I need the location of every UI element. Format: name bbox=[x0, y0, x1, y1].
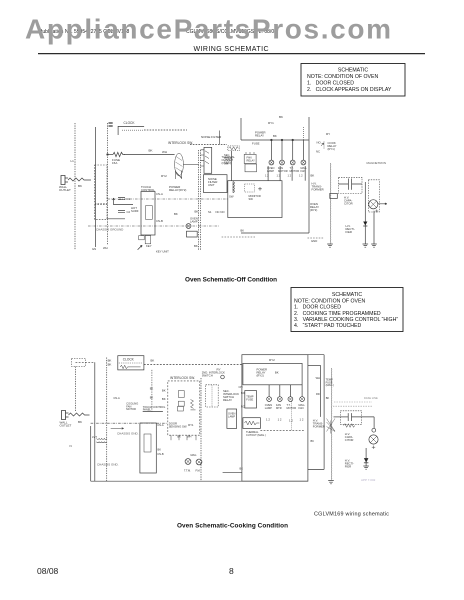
svg-text:FAN: FAN bbox=[299, 406, 304, 410]
svg-text:CN-A: CN-A bbox=[156, 192, 163, 196]
ground symbol cathode bbox=[371, 244, 377, 247]
center rail (double dashed) bbox=[200, 378, 202, 481]
svg-text:BK: BK bbox=[326, 396, 330, 400]
svg-text:NOISE FILTER: NOISE FILTER bbox=[201, 135, 222, 139]
wire cutout to monitor box bbox=[231, 151, 233, 181]
junction dots on bus bbox=[271, 139, 273, 141]
svg-text:BK: BK bbox=[194, 244, 198, 248]
svg-text:Oven Schematic-Cooking Conditi: Oven Schematic-Cooking Condition bbox=[177, 523, 288, 530]
clock inner dotted bbox=[122, 129, 144, 131]
dotted feeder bbox=[302, 127, 304, 140]
svg-text:4. “START” PAD TOUCHED: 4. “START” PAD TOUCHED bbox=[294, 323, 362, 329]
svg-text:WH: WH bbox=[316, 376, 320, 380]
return bus (dashed) bbox=[260, 429, 304, 431]
cook relay contact (dotted) bbox=[323, 142, 325, 150]
lamp socket box bbox=[187, 231, 198, 237]
note box 1 border bbox=[301, 64, 405, 97]
oven lamp motor M1 bbox=[269, 160, 274, 165]
svg-text:BK: BK bbox=[162, 389, 166, 393]
motor drop 4 bbox=[302, 140, 304, 160]
note box 2 border bbox=[291, 288, 403, 332]
control inner block bbox=[146, 206, 153, 220]
wire stub top bbox=[218, 131, 220, 145]
ground bus (dash-dot) bbox=[108, 198, 229, 200]
svg-text:1 2: 1 2 bbox=[300, 418, 304, 422]
touch control panel box U1 bbox=[141, 192, 155, 236]
wire N rail (dashed) bbox=[107, 123, 109, 245]
power cord lead bbox=[69, 413, 90, 416]
motor drop 1 bbox=[270, 140, 272, 160]
wire top left (dashed) bbox=[76, 361, 95, 363]
svg-text:PANEL: PANEL bbox=[143, 408, 152, 412]
ground arrow link bbox=[111, 428, 124, 430]
ground symbol T1 bbox=[327, 244, 333, 247]
svg-text:CN-B: CN-B bbox=[157, 452, 164, 456]
power relay block bbox=[243, 363, 302, 384]
header rule bbox=[38, 53, 425, 55]
ground chassis link (dashed) bbox=[308, 237, 325, 239]
HV transformer T1 winding bbox=[330, 368, 333, 480]
svg-text:FUSE: FUSE bbox=[252, 142, 260, 146]
svg-text:NC: NC bbox=[316, 150, 320, 154]
svg-text:SURF: SURF bbox=[131, 209, 139, 213]
clock unit box corner bbox=[118, 126, 144, 135]
svg-text:KEY: KEY bbox=[146, 244, 152, 248]
door switch box B (dashed) bbox=[95, 205, 107, 220]
svg-text:MTR: MTR bbox=[276, 406, 282, 410]
LVT transformer winding bbox=[97, 438, 107, 441]
HV capacitor box (dashed) bbox=[340, 411, 361, 425]
motor drop 2 bbox=[279, 385, 281, 397]
HV transformer secondary box bbox=[330, 193, 338, 198]
ground symbol diode bbox=[363, 244, 369, 247]
svg-text:FORMER: FORMER bbox=[312, 188, 324, 192]
neutral rail bbox=[90, 426, 92, 481]
svg-text:CLOCK: CLOCK bbox=[123, 358, 135, 362]
svg-text:LAMP: LAMP bbox=[265, 406, 272, 410]
svg-text:BK: BK bbox=[195, 210, 199, 214]
svg-text:NC: NC bbox=[241, 405, 245, 409]
HV diode bar bbox=[364, 462, 369, 464]
rail 3 (dashed) bbox=[106, 358, 108, 482]
svg-text:BK: BK bbox=[311, 439, 315, 443]
node plus magnetron bbox=[375, 210, 378, 213]
power cord plug P1 bbox=[62, 411, 69, 420]
ground symbol T1 bbox=[328, 481, 334, 484]
svg-text:BK: BK bbox=[108, 363, 112, 367]
svg-text:2. CLOCK APPEARS ON DISPLAY: 2. CLOCK APPEARS ON DISPLAY bbox=[307, 87, 392, 93]
noise filter unit box 2 bbox=[204, 175, 228, 193]
HV capacitor box (dashed) bbox=[339, 177, 363, 193]
fuse F1 bbox=[113, 152, 125, 156]
svg-text:RY: RY bbox=[217, 368, 221, 372]
relay coil hatching bbox=[176, 157, 183, 178]
svg-text:1 2: 1 2 bbox=[299, 174, 303, 178]
clock inner dashed bbox=[119, 362, 143, 364]
magnetron tube bbox=[369, 435, 378, 444]
rail 2 bbox=[94, 362, 96, 481]
svg-text:C2: C2 bbox=[127, 210, 131, 214]
HV capacitor plates bbox=[348, 179, 351, 190]
HV transformer T1 winding bbox=[329, 163, 332, 244]
control inner block bbox=[144, 434, 151, 452]
svg-text:OUTLET: OUTLET bbox=[60, 424, 72, 428]
wire lower link bbox=[107, 218, 125, 220]
svg-text:WH: WH bbox=[103, 246, 108, 250]
temp fuse box bbox=[245, 391, 257, 408]
svg-text:(MAG.): (MAG.) bbox=[326, 383, 334, 387]
magnetron cathode rail bbox=[373, 211, 375, 244]
svg-text:UNIT: UNIT bbox=[208, 183, 215, 187]
junction dot bbox=[107, 154, 109, 156]
wire center rail (double dashed) bbox=[198, 150, 200, 250]
svg-text:08/08: 08/08 bbox=[37, 566, 59, 576]
wire to noise filter (dashed) bbox=[190, 144, 227, 146]
svg-text:MAGNETRON: MAGNETRON bbox=[367, 161, 387, 165]
svg-text:WH: WH bbox=[187, 435, 191, 439]
magnetron anode node bbox=[372, 446, 375, 449]
svg-text:RELAY: RELAY bbox=[255, 134, 264, 138]
HV capacitor leads bbox=[339, 183, 363, 185]
HV diode rail bbox=[364, 182, 366, 244]
svg-text:BK: BK bbox=[78, 420, 82, 424]
fan motor M2 bbox=[277, 397, 282, 402]
svg-text:1 2: 1 2 bbox=[277, 174, 281, 178]
svg-text:L1: L1 bbox=[71, 159, 75, 163]
svg-text:BK: BK bbox=[151, 359, 155, 363]
turntable motor M3 bbox=[288, 397, 293, 402]
svg-text:BK: BK bbox=[158, 448, 162, 452]
svg-text:3. VARIABLE COOKING CONTROL: 3. VARIABLE COOKING CONTROL “HIGH” bbox=[294, 317, 398, 323]
svg-text:2. COOKING TIME PROGRAMMED: 2. COOKING TIME PROGRAMMED bbox=[294, 311, 381, 317]
lamp socket box bbox=[227, 409, 237, 428]
svg-text:NC NO: NC NO bbox=[216, 210, 226, 214]
svg-text:BK: BK bbox=[150, 396, 154, 400]
svg-text:APP 7.002: APP 7.002 bbox=[361, 478, 376, 482]
oven lamp motor M1 bbox=[267, 397, 272, 402]
svg-text:N: N bbox=[70, 444, 72, 448]
thermal cutout element bbox=[245, 421, 260, 425]
svg-text:BK: BK bbox=[275, 371, 279, 375]
line filter box (dashed) bbox=[72, 359, 86, 367]
svg-text:T.T.M.: T.T.M. bbox=[184, 469, 191, 473]
magnetron filament terminal bbox=[372, 428, 376, 432]
svg-text:BK: BK bbox=[177, 435, 181, 439]
svg-text:SW.: SW. bbox=[224, 161, 229, 165]
svg-text:1 2: 1 2 bbox=[266, 418, 270, 422]
TTM return dotted bbox=[290, 402, 292, 431]
svg-text:CITOR: CITOR bbox=[344, 202, 353, 206]
wire fuse branch bbox=[108, 154, 114, 156]
svg-text:WIRING SCHEMATIC: WIRING SCHEMATIC bbox=[194, 46, 269, 53]
cook relay arrow bbox=[321, 143, 324, 146]
power relay RY2 coil bbox=[176, 171, 182, 180]
wire gauge marks bbox=[109, 123, 113, 126]
relay coil oval bbox=[175, 153, 184, 175]
motor drop 3 bbox=[292, 140, 294, 160]
svg-text:LAMP: LAMP bbox=[190, 220, 198, 224]
wire rail 2 bbox=[95, 127, 97, 247]
svg-text:RD: RD bbox=[316, 392, 320, 396]
svg-text:RY2: RY2 bbox=[269, 358, 275, 362]
svg-text:CUTOUT (MAG.): CUTOUT (MAG.) bbox=[246, 433, 266, 437]
oven lamp L bbox=[186, 224, 191, 229]
svg-text:(RY2): (RY2) bbox=[310, 208, 317, 212]
svg-text:SW.: SW. bbox=[249, 197, 254, 201]
HV capacitor lead right bbox=[352, 416, 375, 418]
HV capacitor lead left bbox=[334, 416, 349, 418]
magnetron fan motor M4 bbox=[300, 397, 305, 402]
interlock switch bank box bbox=[204, 147, 212, 173]
svg-text:RY2: RY2 bbox=[161, 174, 167, 178]
thermal cutout box (dashed) bbox=[228, 146, 240, 151]
svg-text:MOTOR: MOTOR bbox=[278, 169, 288, 173]
filament leads (gray dashed) bbox=[334, 401, 372, 403]
svg-text:NOTE: CONDITION OF OVEN: NOTE: CONDITION OF OVEN bbox=[294, 298, 365, 304]
power cord lead bbox=[68, 178, 91, 181]
wire L1 drop (dashed) bbox=[75, 367, 77, 412]
svg-text:CN-B: CN-B bbox=[156, 219, 163, 223]
power cord plug P1 bbox=[61, 176, 68, 185]
aux motor M6 bbox=[196, 459, 202, 465]
power in link bbox=[143, 411, 163, 413]
wire L1 rail (dashed) bbox=[74, 123, 76, 250]
turntable motor M3 bbox=[290, 160, 295, 165]
diode rail bbox=[365, 448, 367, 466]
magnetron antenna bbox=[378, 203, 387, 205]
HV return wire bbox=[308, 354, 324, 356]
svg-text:LVT: LVT bbox=[92, 435, 97, 439]
svg-text:INTERLOCK SW.: INTERLOCK SW. bbox=[170, 376, 195, 380]
capacitor C2 plates bbox=[118, 211, 125, 213]
ground symbol diode bbox=[363, 466, 369, 469]
main relay unit box bbox=[242, 355, 308, 482]
svg-text:SW: SW bbox=[229, 195, 234, 199]
chassis ground line (dash-dot) bbox=[91, 422, 167, 424]
wire oval to rail bbox=[183, 164, 198, 166]
bottom return bus bbox=[91, 480, 308, 482]
svg-text:(RY2): (RY2) bbox=[257, 374, 264, 378]
motor drop 2 bbox=[281, 140, 283, 160]
pin ticks above aux bbox=[246, 152, 254, 154]
wire top feeder bbox=[240, 118, 242, 140]
svg-text:BK: BK bbox=[150, 387, 154, 391]
svg-text:CN-A: CN-A bbox=[113, 396, 120, 400]
svg-text:AppliancePartsPros.com: AppliancePartsPros.com bbox=[25, 14, 391, 45]
svg-text:OUTLET: OUTLET bbox=[59, 188, 71, 192]
clock heater element bbox=[120, 365, 140, 369]
svg-text:NO: NO bbox=[317, 141, 322, 145]
node plus bbox=[258, 187, 262, 191]
svg-text:BK: BK bbox=[162, 397, 166, 401]
svg-text:1 2: 1 2 bbox=[278, 418, 282, 422]
svg-text:LAMP: LAMP bbox=[228, 414, 235, 418]
capacitor C1 lead arrow bbox=[113, 198, 115, 205]
interlock monitor box bbox=[228, 181, 282, 218]
svg-text:1 2: 1 2 bbox=[288, 174, 292, 178]
relay coil dotted bbox=[211, 386, 213, 407]
magnetron feed bbox=[373, 417, 375, 428]
svg-text:1. DOOR CLOSED: 1. DOOR CLOSED bbox=[294, 305, 341, 311]
svg-text:CITOR: CITOR bbox=[345, 438, 354, 442]
switch contacts in bank bbox=[205, 151, 209, 164]
wire clock to relay box (dashed) bbox=[144, 363, 242, 365]
relay contact circle bbox=[221, 375, 225, 379]
svg-text:FIER: FIER bbox=[346, 230, 352, 234]
interlock pin drops bbox=[171, 435, 196, 440]
svg-text:MOTOR: MOTOR bbox=[126, 407, 136, 411]
svg-text:8: 8 bbox=[229, 566, 234, 576]
svg-text:BK: BK bbox=[311, 174, 315, 178]
svg-text:RY: RY bbox=[326, 132, 330, 136]
svg-text:RELAY: RELAY bbox=[247, 158, 256, 162]
svg-text:GN: GN bbox=[92, 247, 96, 251]
HV diode D1 bbox=[364, 458, 369, 463]
svg-text:NOTE: CONDITION OF OVEN: NOTE: CONDITION OF OVEN bbox=[307, 74, 378, 80]
touch control panel box U1 bbox=[140, 423, 156, 473]
motor supply bus bbox=[241, 139, 309, 141]
svg-text:Oven Schematic-Off Condition: Oven Schematic-Off Condition bbox=[185, 277, 277, 284]
svg-text:RELAY: RELAY bbox=[223, 398, 232, 402]
svg-text:1 2: 1 2 bbox=[265, 174, 269, 178]
svg-text:CHASSIS GND.: CHASSIS GND. bbox=[97, 463, 119, 467]
svg-text:BK: BK bbox=[241, 229, 245, 233]
key unit boxes bbox=[139, 236, 145, 240]
wire cap common bbox=[114, 204, 133, 206]
thermistor wire (dashed) bbox=[222, 236, 255, 238]
svg-text:FORMER: FORMER bbox=[313, 425, 325, 429]
svg-text:(RY1): (RY1) bbox=[328, 147, 335, 151]
magnetron box (dashed) bbox=[368, 180, 379, 212]
HV feed wire bbox=[308, 364, 321, 366]
svg-text:RELAY(RY2): RELAY(RY2) bbox=[169, 188, 186, 192]
svg-text:BK: BK bbox=[78, 184, 82, 188]
svg-text:SCHEMATIC: SCHEMATIC bbox=[338, 68, 368, 74]
aux box 2 bbox=[245, 164, 257, 172]
svg-text:1. DOOR CLOSED: 1. DOOR CLOSED bbox=[307, 81, 354, 87]
svg-text:FUSE: FUSE bbox=[246, 397, 253, 401]
svg-text:CGLVM169 wiring schematic: CGLVM169 wiring schematic bbox=[314, 512, 389, 518]
wire clock to control panel (dashed) bbox=[151, 370, 153, 412]
svg-text:CHASSIS GND.: CHASSIS GND. bbox=[117, 432, 139, 436]
svg-text:CLOCK: CLOCK bbox=[124, 121, 136, 125]
svg-text:BK: BK bbox=[240, 467, 244, 471]
svg-text:CHASSIS GROUND: CHASSIS GROUND bbox=[96, 228, 124, 232]
switch bank pin stubs bbox=[201, 150, 205, 166]
svg-text:SENSING SW.: SENSING SW. bbox=[169, 425, 188, 429]
svg-text:BK: BK bbox=[174, 212, 178, 216]
motor drop 4 bbox=[301, 385, 303, 397]
svg-text:S1: S1 bbox=[208, 210, 212, 214]
aux box 1 bbox=[244, 154, 256, 163]
HV diode D1 bbox=[363, 222, 367, 226]
motor drop 3 bbox=[289, 385, 291, 397]
fan motor M2 bbox=[280, 160, 285, 165]
svg-text:GND: GND bbox=[311, 239, 317, 243]
HV transformer crossing bbox=[327, 419, 336, 434]
capacitor C1 plates bbox=[118, 198, 125, 200]
svg-text:SCHEMATIC: SCHEMATIC bbox=[332, 292, 362, 298]
svg-text:WH: WH bbox=[162, 150, 167, 154]
svg-text:MOTOR: MOTOR bbox=[290, 169, 300, 173]
HV capacitor plates bbox=[348, 413, 351, 421]
magnetron tube bbox=[369, 200, 378, 209]
svg-text:BK: BK bbox=[149, 149, 153, 153]
svg-text:F.M.: F.M. bbox=[196, 469, 201, 473]
svg-text:15A: 15A bbox=[112, 161, 117, 165]
aux motor M5 bbox=[185, 459, 191, 465]
wire fuse to relay bbox=[124, 154, 175, 156]
wire clock to noise filter (dashed) bbox=[144, 129, 187, 131]
primary interlock switch bbox=[178, 391, 184, 398]
monitor relay coil bbox=[233, 182, 235, 193]
motor drop 1 bbox=[268, 385, 270, 397]
thermal cutout box bbox=[243, 418, 261, 429]
svg-text:CN-A: CN-A bbox=[157, 423, 164, 427]
svg-text:MAG: MAG bbox=[191, 453, 197, 457]
relay box (dashed) bbox=[206, 385, 219, 407]
svg-text:NO: NO bbox=[241, 391, 245, 395]
door sensing switch bbox=[178, 406, 184, 411]
bleed resistor bbox=[344, 424, 355, 428]
door switch box A (dashed) bbox=[95, 165, 107, 204]
chassis ground line (dash-dot) bbox=[88, 225, 219, 227]
svg-text:RY1: RY1 bbox=[268, 121, 274, 125]
motor return drops bbox=[267, 166, 269, 181]
thermal cutout element bbox=[229, 147, 239, 150]
svg-text:RY1: RY1 bbox=[188, 423, 194, 427]
svg-text:SWITCH: SWITCH bbox=[202, 374, 213, 378]
svg-text:FIER: FIER bbox=[345, 465, 351, 469]
bottom return wire bbox=[241, 232, 309, 234]
svg-text:BK: BK bbox=[273, 134, 277, 138]
svg-text:DASH LINE: DASH LINE bbox=[364, 396, 378, 400]
right rail bbox=[308, 117, 310, 233]
svg-text:BK: BK bbox=[279, 115, 283, 119]
svg-text:KEY UNIT: KEY UNIT bbox=[156, 250, 169, 254]
interlock resistor bbox=[191, 400, 196, 410]
lamp link wire bbox=[223, 471, 242, 473]
key unit arrow bbox=[138, 245, 143, 250]
svg-text:INTERLOCK SW.: INTERLOCK SW. bbox=[168, 141, 193, 145]
magnetron fan motor M4 bbox=[301, 160, 306, 165]
secondary interlock switch bbox=[178, 401, 184, 406]
interlock switch box (dashed) bbox=[168, 381, 200, 435]
monitor block (dashed) bbox=[245, 184, 255, 192]
clock unit box bbox=[118, 356, 144, 370]
